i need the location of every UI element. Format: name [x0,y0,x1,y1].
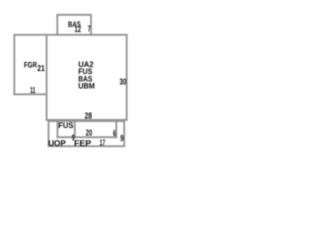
wire: main structure bottom edge [47,119,127,121]
section FGR bottom edge [14,93,46,95]
svg-text:12: 12 [75,24,82,34]
svg-text:6: 6 [113,128,116,138]
section BAS (top bump-out) outline [57,15,91,35]
porch row outer outline (UOP/FEP) [49,121,125,146]
wire: FEP inner right edge [115,121,117,137]
wire: main structure top edge [14,34,126,36]
svg-text:UBM: UBM [78,82,95,91]
svg-text:28: 28 [85,110,93,120]
svg-text:17: 17 [100,137,106,147]
svg-text:FGR: FGR [24,61,37,70]
svg-text:7: 7 [88,23,91,33]
section FUS (lower) right edge [74,121,76,137]
svg-text:UOP: UOP [48,138,66,148]
svg-text:20: 20 [86,128,93,138]
svg-text:FEP: FEP [74,138,92,148]
svg-text:30: 30 [120,77,127,87]
svg-text:21: 21 [37,63,45,73]
section FUS (lower) left edge [57,121,59,137]
section FGR left edge [13,35,15,95]
wire: middle section left edge [46,35,48,120]
wire: FUS/FEP inner bottom edge [58,136,117,138]
wire: main structure right edge [126,35,128,120]
svg-text:9: 9 [120,133,124,143]
svg-text:FUS: FUS [58,121,74,130]
svg-text:11: 11 [30,85,36,95]
